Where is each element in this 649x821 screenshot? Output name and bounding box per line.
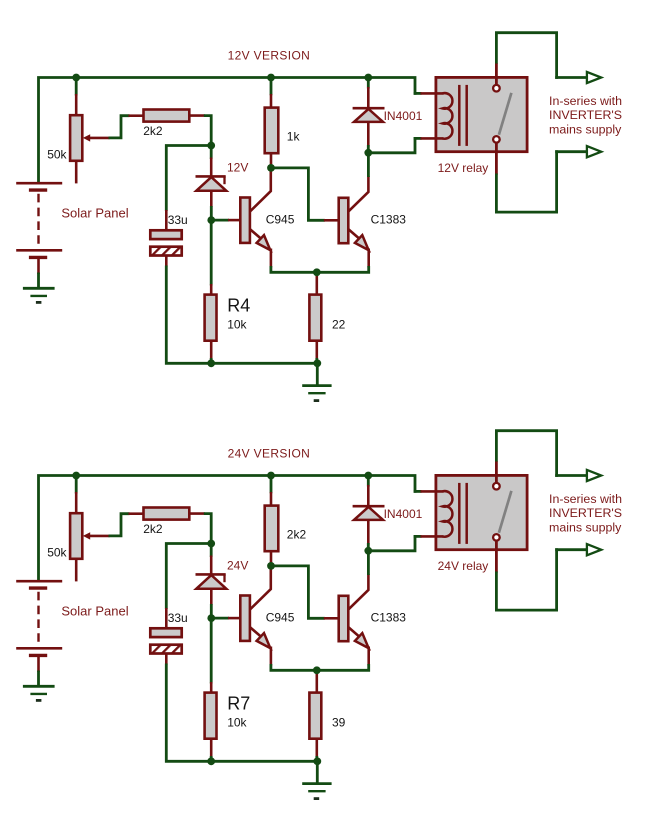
- relay core: [458, 483, 461, 544]
- svg-text:33u: 33u: [168, 213, 188, 227]
- wire wiper to 2k2: [109, 514, 130, 536]
- transistor Q1 C945: [240, 596, 250, 641]
- svg-text:IN4001: IN4001: [384, 507, 423, 521]
- wire node B to C945 base: [211, 219, 229, 222]
- wire top contact to output: [495, 63, 498, 85]
- capacitor 33u: [165, 210, 168, 231]
- svg-text:39: 39: [332, 716, 346, 730]
- svg-text:12V relay: 12V relay: [438, 161, 489, 175]
- wire 2k2 to node A: [204, 514, 211, 544]
- svg-text:12V: 12V: [227, 160, 248, 174]
- wire top rail: [39, 476, 416, 582]
- relay 12V relay: [436, 77, 527, 151]
- zener diode 12V: [210, 146, 213, 160]
- output arrow bottom: [587, 544, 601, 555]
- transistor Q1 C945: [240, 198, 250, 243]
- resistor 1k collector: [270, 78, 273, 96]
- ground main: [316, 363, 319, 386]
- svg-text:Solar Panel: Solar Panel: [61, 604, 128, 619]
- transistor Q2 C1383: [339, 198, 349, 243]
- svg-text:22: 22: [332, 318, 346, 332]
- node E junction: [207, 757, 215, 765]
- svg-text:Solar Panel: Solar Panel: [61, 206, 128, 221]
- svg-text:10k: 10k: [227, 715, 247, 729]
- svg-text:2k2: 2k2: [143, 124, 163, 138]
- wire emitter rail: [271, 664, 369, 670]
- node C junction: [267, 164, 275, 172]
- relay contact bottom: [493, 136, 500, 143]
- node G junction: [364, 547, 372, 555]
- relay contact top: [493, 85, 500, 92]
- wire bottom contact to output: [495, 143, 498, 175]
- node F junction: [313, 757, 321, 765]
- node A junction: [207, 540, 215, 548]
- relay coil: [443, 93, 453, 139]
- ground battery: [23, 685, 55, 688]
- battery solar panel: [16, 182, 62, 185]
- node A junction: [207, 142, 215, 150]
- wire top rail: [39, 78, 416, 184]
- resistor 39 emitter: [315, 670, 318, 693]
- node G junction: [364, 149, 372, 157]
- resistor R7 10k: [210, 618, 213, 683]
- ground main: [316, 761, 319, 784]
- wire coil bottom return: [367, 137, 415, 153]
- wire bottom rail: [211, 760, 319, 763]
- wire node C to C1383 base: [271, 566, 325, 618]
- node I junction on rail: [267, 74, 275, 82]
- relay coil: [443, 491, 453, 537]
- wire coil bottom return: [367, 535, 415, 551]
- resistor 2k2 collector: [270, 476, 273, 494]
- resistor R4 10k: [210, 220, 213, 285]
- node H junction on rail: [72, 74, 80, 82]
- svg-text:10k: 10k: [227, 317, 247, 331]
- wire bottom contact to output: [495, 541, 498, 573]
- node I junction on rail: [267, 472, 275, 480]
- relay contact bottom: [493, 534, 500, 541]
- wire capacitor to bottom rail: [166, 664, 212, 762]
- svg-text:C1383: C1383: [371, 611, 407, 625]
- svg-text:33u: 33u: [168, 611, 188, 625]
- svg-text:mains supply: mains supply: [549, 521, 622, 535]
- wire node B to C945 base: [211, 617, 229, 620]
- svg-text:C1383: C1383: [371, 213, 407, 227]
- wire wiper to 2k2: [109, 116, 130, 138]
- wire 2k2 to node A: [204, 116, 211, 146]
- node D junction: [313, 268, 321, 276]
- node B junction: [207, 216, 215, 224]
- node C junction: [267, 562, 275, 570]
- svg-text:IN4001: IN4001: [384, 109, 423, 123]
- potentiometer 50k: [75, 78, 78, 96]
- output arrow bottom: [587, 146, 601, 157]
- node H junction on rail: [72, 472, 80, 480]
- svg-text:50k: 50k: [47, 147, 67, 161]
- diode IN4001: [367, 476, 370, 487]
- svg-text:C945: C945: [266, 213, 295, 227]
- node B junction: [207, 614, 215, 622]
- node J junction on rail: [364, 472, 372, 480]
- wire bottom rail: [211, 362, 319, 365]
- wire capacitor to bottom rail: [166, 266, 212, 364]
- svg-text:mains supply: mains supply: [549, 123, 622, 137]
- node E junction: [207, 359, 215, 367]
- 24V version circuit: [16, 431, 622, 799]
- output arrow top: [587, 470, 601, 481]
- ground battery: [23, 287, 55, 290]
- relay 24V relay: [436, 475, 527, 549]
- relay contact top: [493, 483, 500, 490]
- svg-text:C945: C945: [266, 611, 295, 625]
- svg-text:INVERTER'S: INVERTER'S: [549, 506, 622, 520]
- svg-text:12V VERSION: 12V VERSION: [228, 48, 311, 62]
- battery solar panel: [16, 580, 62, 583]
- svg-text:50k: 50k: [47, 545, 67, 559]
- relay switch arm: [499, 491, 512, 533]
- node J junction on rail: [364, 74, 372, 82]
- svg-text:INVERTER'S: INVERTER'S: [549, 108, 622, 122]
- svg-text:R4: R4: [227, 296, 250, 316]
- wire node A to capacitor: [166, 544, 211, 610]
- resistor 2k2 horizontal: [129, 114, 145, 117]
- svg-text:2k2: 2k2: [143, 522, 163, 536]
- capacitor 33u: [165, 608, 168, 629]
- 12V version circuit: [16, 33, 622, 401]
- relay switch arm: [499, 93, 512, 135]
- relay core: [458, 85, 461, 146]
- svg-text:In-series with: In-series with: [549, 492, 622, 506]
- svg-text:24V VERSION: 24V VERSION: [228, 446, 311, 460]
- resistor 2k2 horizontal: [129, 512, 145, 515]
- diode IN4001: [367, 78, 370, 89]
- potentiometer 50k: [75, 476, 78, 494]
- svg-text:1k: 1k: [287, 130, 301, 144]
- node D junction: [313, 666, 321, 674]
- transistor Q2 C1383: [339, 596, 349, 641]
- svg-text:2k2: 2k2: [287, 528, 307, 542]
- output arrow top: [587, 72, 601, 83]
- wire node C to C1383 base: [271, 168, 325, 220]
- zener diode 24V: [210, 544, 213, 558]
- svg-text:R7: R7: [227, 694, 250, 714]
- wire node A to capacitor: [166, 146, 211, 212]
- wire top contact to output: [495, 461, 498, 483]
- node F junction: [313, 359, 321, 367]
- svg-text:24V relay: 24V relay: [438, 559, 489, 573]
- resistor 22 emitter: [315, 272, 318, 295]
- svg-text:In-series with: In-series with: [549, 94, 622, 108]
- svg-text:24V: 24V: [227, 558, 248, 572]
- wire emitter rail: [271, 266, 369, 272]
